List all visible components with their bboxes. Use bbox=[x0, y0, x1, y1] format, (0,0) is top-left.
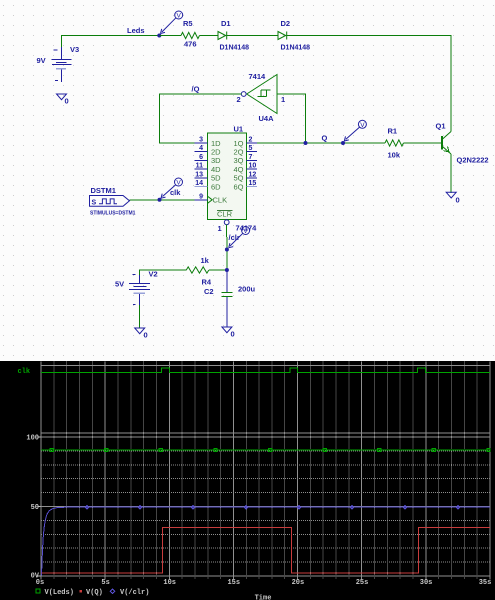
U4A hysteresis symbol bbox=[258, 90, 271, 97]
junction dot R4/C2//clr bbox=[225, 268, 229, 272]
svg-text:R5: R5 bbox=[183, 19, 193, 28]
svg-text:15: 15 bbox=[249, 180, 257, 187]
svg-text:DSTM1: DSTM1 bbox=[91, 186, 116, 195]
svg-text:5: 5 bbox=[249, 145, 253, 152]
voltage probe V at node Q bbox=[344, 120, 366, 141]
svg-text:V(Leds): V(Leds) bbox=[45, 589, 74, 597]
svg-text:STIMULUS=DSTM1: STIMULUS=DSTM1 bbox=[90, 211, 136, 217]
svg-text:0: 0 bbox=[144, 331, 148, 340]
svg-text:V3: V3 bbox=[70, 45, 79, 54]
wire R4 to C2 junction bbox=[209, 269, 227, 271]
legend marker square V(Leds) bbox=[36, 589, 40, 593]
svg-text:25s: 25s bbox=[356, 579, 369, 587]
junction dot node clk bbox=[158, 198, 162, 202]
svg-text:5V: 5V bbox=[115, 280, 124, 289]
svg-text:1Q: 1Q bbox=[233, 139, 243, 148]
svg-text:D1N4148: D1N4148 bbox=[220, 45, 250, 52]
U1 CLK wedge and label bbox=[208, 196, 213, 203]
U1 pin 9 stub bbox=[195, 199, 208, 201]
svg-text:5D: 5D bbox=[211, 174, 221, 183]
svg-text:13: 13 bbox=[195, 171, 203, 178]
svg-text:D1: D1 bbox=[221, 19, 231, 28]
junction dot node /clr bbox=[225, 248, 229, 252]
voltage probe V at node Leds bbox=[161, 11, 183, 34]
svg-text:0: 0 bbox=[65, 97, 69, 106]
stimulus DSTM1 symbol bbox=[90, 196, 130, 207]
svg-text:14: 14 bbox=[195, 180, 203, 187]
probe plot: y axis ticks bbox=[38, 437, 42, 576]
svg-text:100: 100 bbox=[26, 435, 39, 443]
svg-text:11: 11 bbox=[196, 163, 204, 170]
svg-text:Time: Time bbox=[255, 595, 272, 600]
resistor R4 bbox=[186, 267, 209, 273]
svg-text:1k: 1k bbox=[201, 256, 210, 265]
svg-text:V: V bbox=[243, 228, 248, 235]
svg-text:1: 1 bbox=[281, 95, 285, 104]
svg-text:6: 6 bbox=[199, 154, 203, 161]
svg-text:2Q: 2Q bbox=[233, 148, 243, 157]
node Leds junction dot bbox=[157, 34, 161, 38]
svg-text:9V: 9V bbox=[37, 56, 46, 65]
svg-text:5s: 5s bbox=[101, 579, 109, 587]
trace V(Q) red square wave bbox=[42, 528, 491, 574]
diode D1 bbox=[218, 32, 227, 40]
U1 right pin stubs bbox=[247, 143, 258, 178]
trace V(Leds) green with square markers bbox=[41, 449, 490, 451]
svg-text:V: V bbox=[360, 122, 365, 129]
svg-text:Q1: Q1 bbox=[436, 122, 446, 131]
wire U1 pin2 1Q to R1 (node Q) bbox=[257, 142, 385, 144]
resistor R5 bbox=[181, 32, 199, 38]
U4A input bubble pin 2 bbox=[241, 92, 246, 97]
voltage probe V at node /clr bbox=[229, 227, 250, 248]
svg-text:C2: C2 bbox=[204, 287, 214, 296]
svg-text:6Q: 6Q bbox=[233, 182, 243, 191]
svg-text:7414: 7414 bbox=[249, 72, 267, 81]
probe plot: grid minor vertical lines bbox=[54, 362, 477, 580]
wire D2 to Q1 collector (top rail right and down) bbox=[287, 36, 451, 132]
svg-text:0: 0 bbox=[231, 330, 235, 339]
IC U1 74174 body bbox=[208, 133, 247, 220]
U1 left pin stubs bbox=[195, 143, 208, 178]
capacitor C2 bbox=[222, 270, 233, 327]
svg-text:V: V bbox=[176, 180, 181, 187]
svg-text:12: 12 bbox=[249, 171, 257, 178]
svg-text:2D: 2D bbox=[211, 148, 221, 157]
svg-text:10k: 10k bbox=[388, 151, 401, 160]
svg-text:9: 9 bbox=[199, 193, 203, 200]
probe plot: grid major vertical lines bbox=[41, 362, 490, 580]
svg-text:6D: 6D bbox=[211, 182, 221, 191]
svg-text:30s: 30s bbox=[420, 579, 433, 587]
svg-text:clk: clk bbox=[18, 368, 31, 376]
svg-text:/Q: /Q bbox=[192, 85, 200, 94]
probe plot: grid minor horizontal lines lower panel bbox=[41, 451, 490, 562]
svg-text:3D: 3D bbox=[211, 156, 221, 165]
wire U1 CLR bubble to node /clr and RC junction bbox=[226, 225, 228, 270]
wire D1 to D2 bbox=[227, 35, 278, 37]
svg-text:10s: 10s bbox=[163, 579, 176, 587]
junction dot U4A input tap bbox=[304, 141, 308, 145]
resistor R1 bbox=[385, 140, 403, 146]
wire R1 to Q1 base bbox=[404, 142, 443, 144]
svg-text:5Q: 5Q bbox=[233, 174, 243, 183]
clk digital trace bbox=[41, 368, 490, 372]
battery V2 bbox=[129, 275, 150, 305]
ground 0 under C2 bbox=[222, 327, 232, 333]
junction dot node Q probe bbox=[341, 141, 345, 145]
wire Leds to R5 bbox=[159, 35, 181, 37]
svg-text:clk: clk bbox=[170, 188, 181, 197]
svg-text:V2: V2 bbox=[149, 270, 158, 279]
ground 0 under Q1 emitter bbox=[446, 192, 456, 198]
svg-text:7: 7 bbox=[249, 154, 253, 161]
svg-text:R1: R1 bbox=[388, 127, 398, 136]
battery V3 bbox=[51, 47, 71, 82]
svg-text:V(/clr): V(/clr) bbox=[120, 589, 149, 597]
ground 0 under V3 bbox=[57, 94, 67, 100]
wire /Q from U4A output to U1 pin 3 bbox=[160, 94, 242, 143]
probe plot: 50 level gridline bbox=[41, 506, 490, 508]
svg-text:50: 50 bbox=[31, 504, 39, 512]
svg-text:D2: D2 bbox=[281, 19, 291, 28]
legend marker dot V(Q) bbox=[80, 590, 83, 593]
svg-text:15s: 15s bbox=[227, 579, 240, 587]
transistor Q1 bbox=[442, 132, 451, 194]
svg-text:200u: 200u bbox=[238, 285, 256, 294]
svg-text:476: 476 bbox=[184, 40, 197, 49]
svg-text:CLR: CLR bbox=[217, 210, 233, 219]
svg-text:0: 0 bbox=[456, 196, 460, 205]
svg-text:20s: 20s bbox=[292, 579, 305, 587]
svg-text:CLK: CLK bbox=[213, 196, 228, 205]
legend marker diamond V(/clr) bbox=[110, 589, 114, 593]
ground 0 under V2 bbox=[135, 328, 145, 334]
wire U4A input pin1 to node Q bbox=[277, 94, 306, 143]
svg-text:4: 4 bbox=[199, 145, 203, 152]
svg-text:0s: 0s bbox=[36, 579, 44, 587]
wire battery V3 to top rail bbox=[62, 36, 160, 48]
probe plot: upper panel border (clk) bbox=[41, 366, 490, 434]
svg-text:3: 3 bbox=[199, 137, 203, 144]
wire R5 to D1 bbox=[200, 35, 219, 37]
svg-text:U4A: U4A bbox=[259, 114, 275, 123]
svg-text:2: 2 bbox=[237, 95, 241, 104]
svg-text:3Q: 3Q bbox=[233, 156, 243, 165]
voltage probe V at node clk bbox=[161, 178, 183, 198]
svg-text:Q: Q bbox=[322, 134, 328, 143]
svg-text:R4: R4 bbox=[202, 278, 212, 287]
diode D2 bbox=[278, 32, 287, 40]
svg-text:1: 1 bbox=[218, 224, 222, 233]
svg-text:D1N4148: D1N4148 bbox=[281, 45, 311, 52]
svg-text:35s: 35s bbox=[479, 579, 492, 587]
svg-text:2: 2 bbox=[249, 137, 253, 144]
svg-text:1D: 1D bbox=[211, 139, 221, 148]
svg-text:4Q: 4Q bbox=[233, 165, 243, 174]
svg-text:U1: U1 bbox=[234, 125, 244, 134]
wire DSTM1 to U1 CLK bbox=[130, 199, 195, 201]
svg-text:Q2N2222: Q2N2222 bbox=[457, 156, 489, 165]
svg-text:S: S bbox=[92, 200, 97, 207]
op-amp style inverter U4A 7414 triangle bbox=[247, 75, 277, 114]
svg-text:10: 10 bbox=[249, 163, 257, 170]
trace V(/clr) purple exponential then flat with diamond markers bbox=[42, 507, 491, 575]
wire V2 to R4 bbox=[140, 270, 187, 328]
svg-text:Leds: Leds bbox=[127, 26, 145, 35]
svg-text:V: V bbox=[177, 13, 182, 20]
probe plot: lower panel border bbox=[41, 437, 490, 576]
svg-text:V(Q): V(Q) bbox=[86, 589, 103, 597]
svg-text:4D: 4D bbox=[211, 165, 221, 174]
U1 CLR bubble pin 1 bbox=[224, 220, 229, 225]
